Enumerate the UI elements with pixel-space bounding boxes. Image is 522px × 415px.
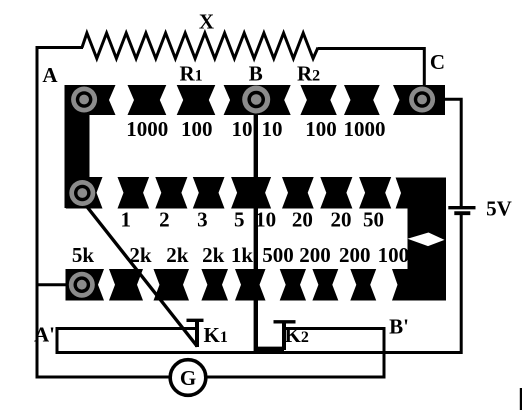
plug block 1000 (row 1 right) [344, 85, 380, 115]
plug block 50 (row 2) [359, 177, 391, 209]
wire: X right end to terminal C [318, 48, 424, 87]
white diamond notch in right-hand block [408, 233, 445, 247]
svg-text:A': A' [34, 323, 55, 347]
svg-text:200: 200 [339, 243, 371, 267]
svg-text:50: 50 [363, 208, 384, 232]
battery cell 5V short plate [454, 211, 470, 215]
connecting bar from terminal A down to second row terminal [65, 85, 90, 208]
svg-text:10: 10 [232, 117, 253, 141]
terminal block A (row 1) [65, 85, 116, 115]
terminal block C (row 1) [393, 85, 445, 115]
svg-text:1000: 1000 [344, 117, 386, 141]
terminal block B (row 1 centre) [224, 85, 291, 115]
plug block 2k (row 3) [154, 269, 190, 301]
svg-text:2k: 2k [166, 243, 189, 267]
svg-text:100: 100 [181, 117, 213, 141]
plug block 20 (row 2) [282, 177, 314, 209]
svg-text:10: 10 [255, 208, 276, 232]
plug block 5-10 (wide) (row 2) [231, 177, 271, 209]
key bar rectangle A-prime to B-prime [59, 330, 383, 351]
svg-text:5: 5 [234, 208, 245, 232]
stray black mark bottom right corner [520, 388, 522, 410]
svg-text:2: 2 [159, 208, 170, 232]
svg-text:G: G [180, 366, 196, 390]
svg-text:X: X [199, 10, 214, 34]
plug block 3 (row 2) [193, 177, 225, 209]
svg-text:1k: 1k [231, 243, 254, 267]
svg-text:500: 500 [262, 243, 294, 267]
resistor X (unknown resistance zigzag) [82, 33, 318, 59]
key K1 plug [195, 321, 199, 348]
galvanometer G [170, 360, 206, 396]
svg-text:A: A [42, 63, 58, 87]
second row terminal block with brass circle [66, 177, 103, 209]
svg-text:5k: 5k [72, 243, 95, 267]
svg-text:1000: 1000 [126, 117, 168, 141]
plug block 1000 (row 1 left) [128, 85, 167, 115]
battery cell 5V long plate [448, 206, 475, 209]
svg-text:100: 100 [305, 117, 337, 141]
plug block 2k (row 3) [109, 269, 143, 301]
svg-text:B': B' [389, 315, 409, 339]
wire: bottom right of G to key bar riser [206, 353, 384, 378]
battery branch: C terminal to 5V cell down to key bar [444, 99, 461, 206]
svg-text:2k: 2k [202, 243, 225, 267]
plug block 200 (row 3) [350, 269, 376, 301]
plug block 100 (row 1 left) [177, 85, 216, 115]
key K2 plug [282, 322, 286, 350]
svg-text:3: 3 [197, 208, 208, 232]
svg-text:2k: 2k [129, 243, 152, 267]
svg-text:10: 10 [262, 117, 283, 141]
svg-text:1: 1 [121, 208, 132, 232]
wire: terminal B down through bridge to key K2 [256, 112, 284, 349]
wire: diagonal from left arm terminal to key K1 [86, 206, 197, 347]
plug block 200 (row 3) [312, 269, 338, 301]
svg-text:5V: 5V [486, 197, 512, 221]
svg-text:C: C [430, 50, 445, 74]
plug block 20 (row 2) [320, 177, 352, 209]
plug block 1 (row 2) [118, 177, 150, 209]
plug block 1k (row 3) [235, 269, 266, 301]
terminal block 5k (row 3) with brass circle [66, 269, 105, 301]
wire: battery negative down and left to key bar [384, 215, 461, 353]
svg-text:B: B [249, 62, 263, 86]
plug block 2 (row 2) [155, 177, 187, 209]
plug block 2k (row 3) [201, 269, 228, 301]
plug block 100 (row 1 right) [300, 85, 336, 115]
wire: left frame from X down to galvanometer branch [37, 48, 170, 378]
wire: left frame to 5k terminal [37, 283, 66, 286]
svg-text:20: 20 [331, 208, 352, 232]
svg-text:20: 20 [292, 208, 313, 232]
large right-hand block joining rows 2 and 3 [392, 178, 446, 301]
svg-text:100: 100 [378, 243, 410, 267]
plug block 500 (row 3) [280, 269, 306, 301]
svg-text:200: 200 [299, 243, 331, 267]
